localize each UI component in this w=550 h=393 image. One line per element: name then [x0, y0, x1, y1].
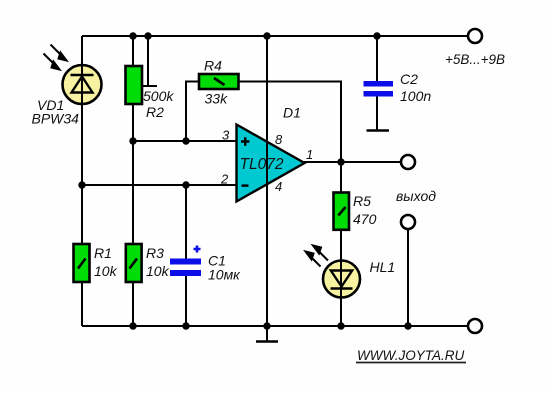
- photodiode VD1 body: [63, 65, 102, 104]
- svg-text:8: 8: [275, 132, 283, 147]
- junction dot pin3 row / R4: [182, 137, 189, 144]
- svg-text:470: 470: [353, 211, 377, 227]
- op-amp minus input mark: [242, 184, 249, 186]
- op-amp supply vertical wire: [266, 36, 268, 326]
- junction dot pin2 row / VD1: [78, 181, 85, 188]
- photodiode VD1 symbol: [71, 75, 94, 93]
- terminal output upper: [401, 155, 415, 169]
- wire output row: [304, 161, 401, 163]
- junction dot top rail / R2: [129, 32, 136, 39]
- LED HL1 light arrows: [306, 246, 329, 267]
- junction dot bottom rail / HL1: [337, 322, 344, 329]
- svg-text:4: 4: [275, 179, 282, 194]
- terminal +V supply: [468, 29, 482, 43]
- svg-text:2: 2: [220, 172, 229, 187]
- junction dot bottom rail / ground: [263, 322, 270, 329]
- svg-text:R3: R3: [146, 245, 164, 261]
- wire R4 left leg to pin3 node: [186, 82, 199, 142]
- wire R2 wiper tap: [142, 36, 148, 86]
- wire lower output terminal branch: [407, 229, 409, 326]
- capacitor C1 plates: [170, 259, 201, 265]
- resistor R3 (10k): [126, 244, 142, 282]
- ground symbol at C2: [367, 129, 390, 132]
- capacitor C2 plates: [364, 81, 394, 87]
- ground symbol main: [256, 326, 278, 342]
- svg-text:500k: 500k: [143, 88, 174, 104]
- junction dot top rail / supply: [263, 32, 270, 39]
- terminal output lower: [401, 215, 415, 229]
- svg-text:WWW.JOYTA.RU: WWW.JOYTA.RU: [357, 348, 464, 363]
- junction dot bottom rail / R3: [129, 322, 136, 329]
- svg-text:3: 3: [222, 128, 230, 143]
- svg-text:HL1: HL1: [370, 259, 396, 275]
- svg-text:10k: 10k: [146, 263, 170, 279]
- wire C2 branch lower: [376, 96, 378, 130]
- resistor R5 (470): [334, 193, 350, 230]
- op-amp supply wire visible inside triangle: [266, 125, 268, 201]
- svg-text:100n: 100n: [400, 88, 431, 104]
- junction dot output node: [337, 158, 344, 165]
- resistor R1 (10k): [74, 244, 90, 282]
- terminal ground right: [468, 319, 482, 333]
- wire C1 branch lower: [185, 273, 187, 326]
- junction dot top rail / C2: [373, 32, 380, 39]
- svg-text:D1: D1: [283, 105, 301, 121]
- svg-text:1: 1: [306, 147, 313, 162]
- wire R4 right leg feedback: [238, 82, 341, 163]
- wire C1 branch upper: [185, 185, 187, 260]
- wire top rail: [82, 35, 468, 37]
- svg-text:+5В...+9В: +5В...+9В: [445, 52, 505, 67]
- wire R5/HL1 branch: [340, 162, 342, 326]
- wire R2/R3 vertical branch: [132, 36, 134, 326]
- wire left vertical (VD1/R1 branch): [81, 36, 83, 326]
- capacitor C1 polarity plus: [194, 246, 201, 253]
- junction dot bottom rail / C1: [182, 322, 189, 329]
- svg-text:R2: R2: [146, 104, 164, 120]
- svg-text:R1: R1: [94, 245, 112, 261]
- resistor R2 (500k): [126, 66, 143, 104]
- LED HL1 body: [323, 261, 360, 298]
- wire pin2 row: [82, 184, 237, 186]
- svg-text:33k: 33k: [205, 91, 229, 107]
- junction dot pin2 row / C1: [182, 181, 189, 188]
- svg-text:R4: R4: [204, 58, 222, 74]
- wire pin3 row: [133, 140, 237, 142]
- svg-text:BPW34: BPW34: [32, 111, 80, 127]
- svg-text:выход: выход: [396, 188, 436, 204]
- photodiode VD1 light arrows: [44, 45, 67, 70]
- wire bottom rail: [82, 325, 468, 327]
- op-amp U1 D1 TL072: [237, 125, 305, 202]
- svg-text:10k: 10k: [94, 263, 118, 279]
- resistor R4 (33k): [199, 74, 239, 89]
- svg-text:R5: R5: [353, 193, 371, 209]
- svg-text:C2: C2: [400, 71, 418, 87]
- svg-text:TL072: TL072: [240, 156, 284, 173]
- junction dot pin3 row / R2-R3: [129, 137, 136, 144]
- LED HL1 symbol: [331, 271, 353, 289]
- svg-text:10мк: 10мк: [208, 267, 241, 283]
- op-amp plus input mark: [241, 137, 249, 145]
- junction dot top rail / R2 tap: [144, 32, 151, 39]
- junction dot bottom rail / output: [404, 322, 411, 329]
- wire C2 branch upper: [376, 36, 378, 82]
